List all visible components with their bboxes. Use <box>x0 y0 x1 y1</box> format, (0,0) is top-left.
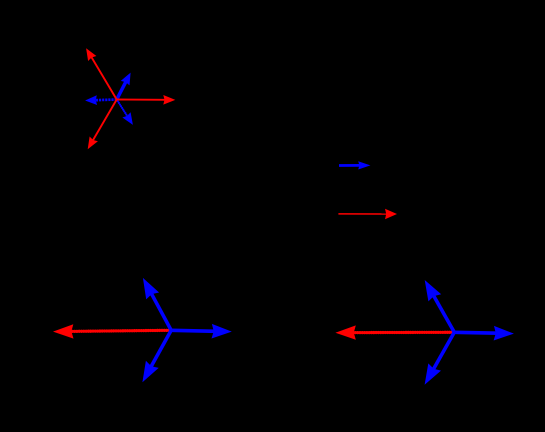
blue vector up-left (bottom-left trident) <box>143 278 171 330</box>
blue vector down-left (bottom-left trident) <box>142 330 171 382</box>
blue vector right (bottom-right trident) <box>454 326 514 341</box>
blue vector (star, 60 deg, solid) <box>117 73 131 100</box>
red dotted resultant left (bottom-left) <box>53 324 173 338</box>
blue vector down-left (bottom-right trident) <box>425 332 455 385</box>
red vector photon 3 (star, 240 deg) <box>88 100 117 150</box>
blue vector right (bottom-left trident) <box>171 324 232 339</box>
red vector photon 2 (star, 120 deg) <box>86 48 117 99</box>
blue vector (star, 180 deg, dotted) <box>85 95 117 105</box>
legend key blue arrow <box>339 161 370 169</box>
legend key red arrow <box>338 209 397 220</box>
red vector photon 1 (star, 0 deg) <box>117 95 176 105</box>
blue vector (star, 300 deg, dotted) <box>116 98 133 125</box>
red dotted resultant left (bottom-right) <box>335 325 456 339</box>
blue vector up-left (bottom-right trident) <box>425 280 455 332</box>
